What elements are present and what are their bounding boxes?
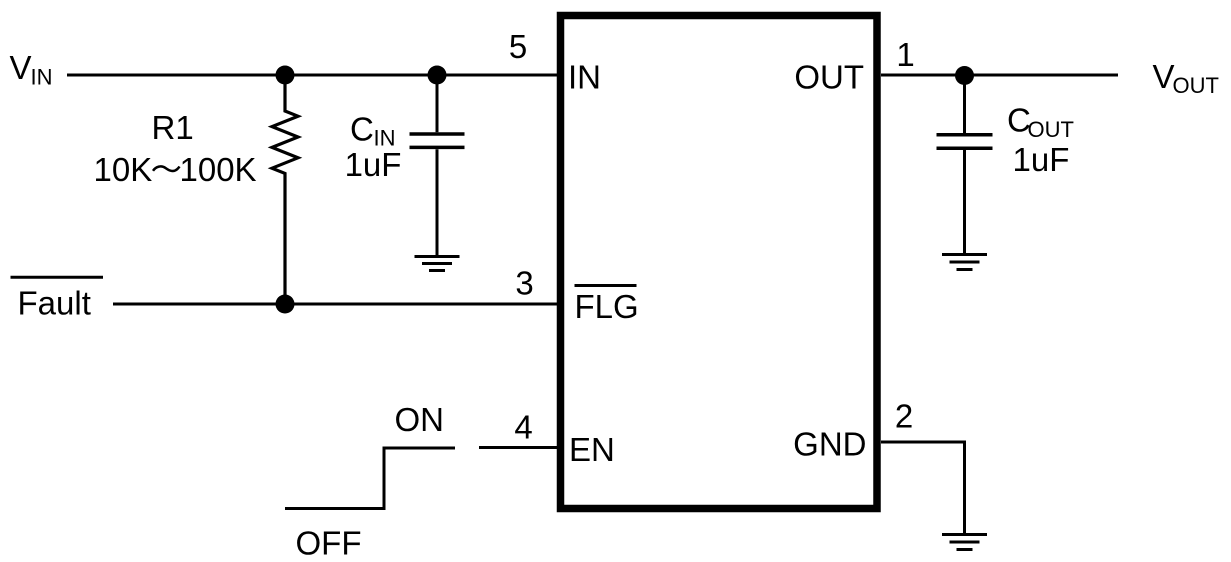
svg-text:4: 4 bbox=[514, 409, 532, 446]
svg-text:IN: IN bbox=[31, 65, 53, 90]
svg-text:10K: 10K bbox=[94, 151, 153, 188]
svg-text:OFF: OFF bbox=[296, 525, 362, 562]
svg-text:EN: EN bbox=[569, 431, 615, 468]
svg-text:1uF: 1uF bbox=[345, 146, 402, 183]
svg-text:C: C bbox=[350, 111, 374, 148]
svg-text:FLG: FLG bbox=[575, 288, 639, 325]
svg-text:OUT: OUT bbox=[1028, 117, 1074, 142]
svg-text:OUT: OUT bbox=[794, 59, 864, 96]
svg-text:2: 2 bbox=[895, 398, 913, 435]
svg-text:100K: 100K bbox=[180, 151, 257, 188]
svg-text:OUT: OUT bbox=[1173, 73, 1219, 98]
svg-text:ON: ON bbox=[395, 401, 445, 438]
svg-text:5: 5 bbox=[509, 28, 527, 65]
svg-text:1uF: 1uF bbox=[1013, 141, 1070, 178]
svg-text:Fault: Fault bbox=[18, 285, 91, 322]
svg-text:IN: IN bbox=[568, 59, 601, 96]
svg-text:R1: R1 bbox=[152, 109, 194, 146]
svg-text:V: V bbox=[10, 49, 32, 86]
svg-text:3: 3 bbox=[515, 265, 533, 302]
svg-text:1: 1 bbox=[896, 36, 914, 73]
svg-text:V: V bbox=[1153, 58, 1175, 95]
svg-text:GND: GND bbox=[793, 426, 866, 463]
